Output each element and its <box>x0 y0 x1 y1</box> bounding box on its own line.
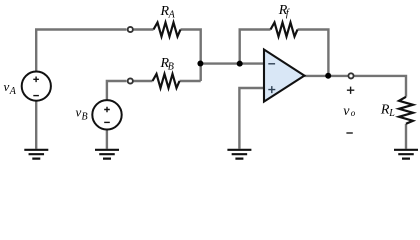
svg-text:B: B <box>82 112 88 123</box>
svg-text:A: A <box>9 86 17 97</box>
svg-text:L: L <box>388 108 395 119</box>
svg-text:v: v <box>4 79 10 94</box>
svg-text:o: o <box>351 108 356 118</box>
svg-text:B: B <box>168 62 174 73</box>
svg-text:A: A <box>168 10 176 21</box>
svg-text:v: v <box>343 104 350 119</box>
svg-text:f: f <box>286 8 290 19</box>
